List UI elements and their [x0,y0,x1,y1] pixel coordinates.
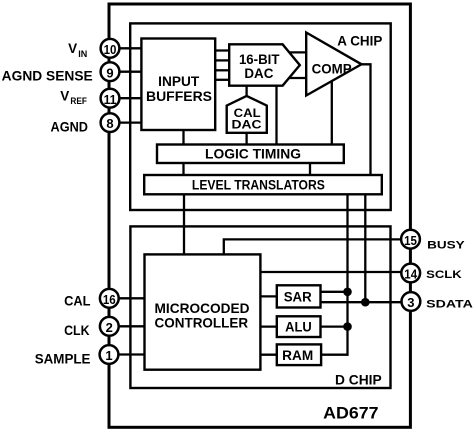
svg-text:BUSY: BUSY [427,239,465,251]
wire BUSY pin15 [224,239,409,255]
svg-text:BUFFERS: BUFFERS [146,89,212,104]
wire controller to ALU [260,325,278,327]
wire logic timing to level translators right [309,162,311,176]
wire pin10 to input buffers [110,47,143,49]
junction dot ALU bus [343,322,352,331]
wire pin8 to input buffers [110,121,143,123]
wire cal dac to logic timing [245,132,247,146]
wire comp output to level translators [361,64,371,176]
svg-text:COMP: COMP [312,61,352,76]
wire logic timing to level translators left [182,162,184,176]
svg-text:SCLK: SCLK [426,269,462,281]
svg-text:SAMPLE: SAMPLE [35,351,91,366]
svg-text:16: 16 [103,292,116,307]
svg-text:2: 2 [106,320,113,335]
A CHIP boundary box [130,23,391,210]
SAR box [277,285,321,307]
svg-text:15: 15 [404,233,417,248]
junction dot SDATA node [361,298,370,307]
pin 1 circle [100,345,119,364]
input buffers box U-IB [141,39,215,131]
junction dot SAR bus [343,288,352,297]
wire dac to comp lower [288,77,307,79]
pin 16 circle [100,289,119,308]
svg-text:DAC: DAC [232,117,262,131]
ALU box [277,316,321,337]
wire bus input buffers to dac line2 [214,59,230,61]
logic timing box [157,145,344,164]
RAM box [277,344,321,365]
svg-text:14: 14 [404,267,417,282]
svg-text:IN: IN [78,49,87,59]
svg-text:SAR: SAR [284,289,312,304]
svg-text:CONTROLLER: CONTROLLER [155,314,249,330]
microcoded controller box [145,254,261,369]
pin 11 circle [101,89,120,108]
svg-text:V: V [60,88,69,103]
svg-text:INPUT: INPUT [158,74,200,89]
wire pin11 to input buffers [110,97,143,99]
wire controller to SAR [260,295,278,297]
D CHIP boundary box [130,226,390,388]
svg-text:AGND SENSE: AGND SENSE [2,69,93,84]
svg-text:9: 9 [106,65,113,80]
svg-text:RAM: RAM [282,348,313,363]
wire ALU output to bus [320,325,349,327]
CAL DAC pentagon [227,96,267,133]
AD677 package outline [109,4,410,427]
pin 8 circle [101,113,120,132]
wire RAM output to bus [320,354,349,356]
wire pin16 to microcoded controller [110,297,146,299]
wire bus input buffers to dac line3 [214,69,230,71]
svg-text:DAC: DAC [244,66,273,81]
pin 15 circle [401,230,420,249]
svg-text:11: 11 [104,92,117,107]
wire level translators down to sar/alu/ram bus [346,194,348,356]
pin 2 circle [100,317,119,336]
svg-text:AGND: AGND [51,120,89,135]
svg-text:ALU: ALU [285,320,312,335]
pin 14 circle [401,264,420,283]
wire pin1 to microcoded controller [110,353,146,355]
svg-text:3: 3 [407,295,414,310]
svg-text:CAL: CAL [64,294,90,309]
svg-text:LOGIC TIMING: LOGIC TIMING [205,147,301,162]
wire dac to comp upper [288,51,307,53]
svg-text:CLK: CLK [64,323,90,338]
svg-text:V: V [68,41,77,56]
svg-text:AD677: AD677 [323,404,378,423]
wire level translators down to sdata node [364,194,366,303]
wire bus input buffers to dac line1 [214,49,230,51]
pin 3 circle [402,292,421,311]
wire comp bottom to logic timing [331,80,333,146]
wire controller to RAM [260,354,278,356]
level translators box [144,175,382,194]
wire SCLK pin14 [260,271,410,273]
16-bit DAC pentagon [229,44,300,85]
pin 9 circle [101,62,120,81]
comparator COMP triangle [306,33,361,96]
svg-text:10: 10 [104,42,117,57]
wire level translators to microcoded controller [183,194,185,256]
wire SAR output to bus [320,291,349,293]
pin 10 circle [101,39,120,58]
wire bus input buffers to dac line4 [214,79,230,81]
wire input buffers to logic timing [182,129,184,146]
svg-text:SDATA: SDATA [426,299,473,311]
svg-text:1: 1 [105,348,112,363]
svg-text:16-BIT: 16-BIT [239,52,280,67]
svg-text:REF: REF [70,96,87,106]
svg-text:A CHIP: A CHIP [337,34,382,49]
svg-text:D CHIP: D CHIP [335,373,382,388]
wire SDATA pin3 [320,301,410,303]
wire pin9 to input buffers [110,71,143,73]
svg-text:LEVEL TRANSLATORS: LEVEL TRANSLATORS [192,178,325,193]
wire dac to cal dac [245,85,247,97]
wire dac to logic timing [275,85,277,146]
wire pin2 to microcoded controller [110,325,146,327]
svg-text:8: 8 [106,116,113,131]
